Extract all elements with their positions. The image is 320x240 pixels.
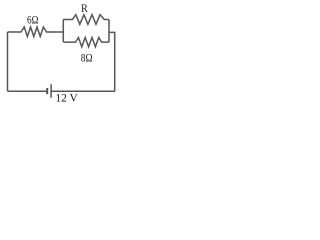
svg-text:R: R [81, 1, 88, 15]
resistor R1 6Ω (top wire with zigzag) [8, 27, 64, 37]
battery B1 negative plate (short) [46, 88, 48, 94]
node A: left junction bar of parallel branches [62, 20, 64, 43]
wire: bottom left segment from battery negative plate [8, 90, 47, 92]
battery B1 positive plate (long) [50, 84, 52, 98]
wire: output from node B to right edge, down to bottom wire [109, 32, 115, 91]
node B: right junction bar of parallel branches [108, 20, 110, 43]
resistor R2 8Ω (bottom parallel branch zigzag) [63, 38, 109, 47]
svg-text:6Ω: 6Ω [27, 13, 38, 27]
svg-text:12 V: 12 V [55, 91, 78, 105]
svg-text:8Ω: 8Ω [81, 50, 93, 64]
wire: left edge (top-left corner down to bottom-left corner) [7, 32, 9, 91]
wire: bottom right segment to battery positive plate [51, 90, 114, 92]
resistor R (top parallel branch zigzag) [63, 15, 109, 25]
